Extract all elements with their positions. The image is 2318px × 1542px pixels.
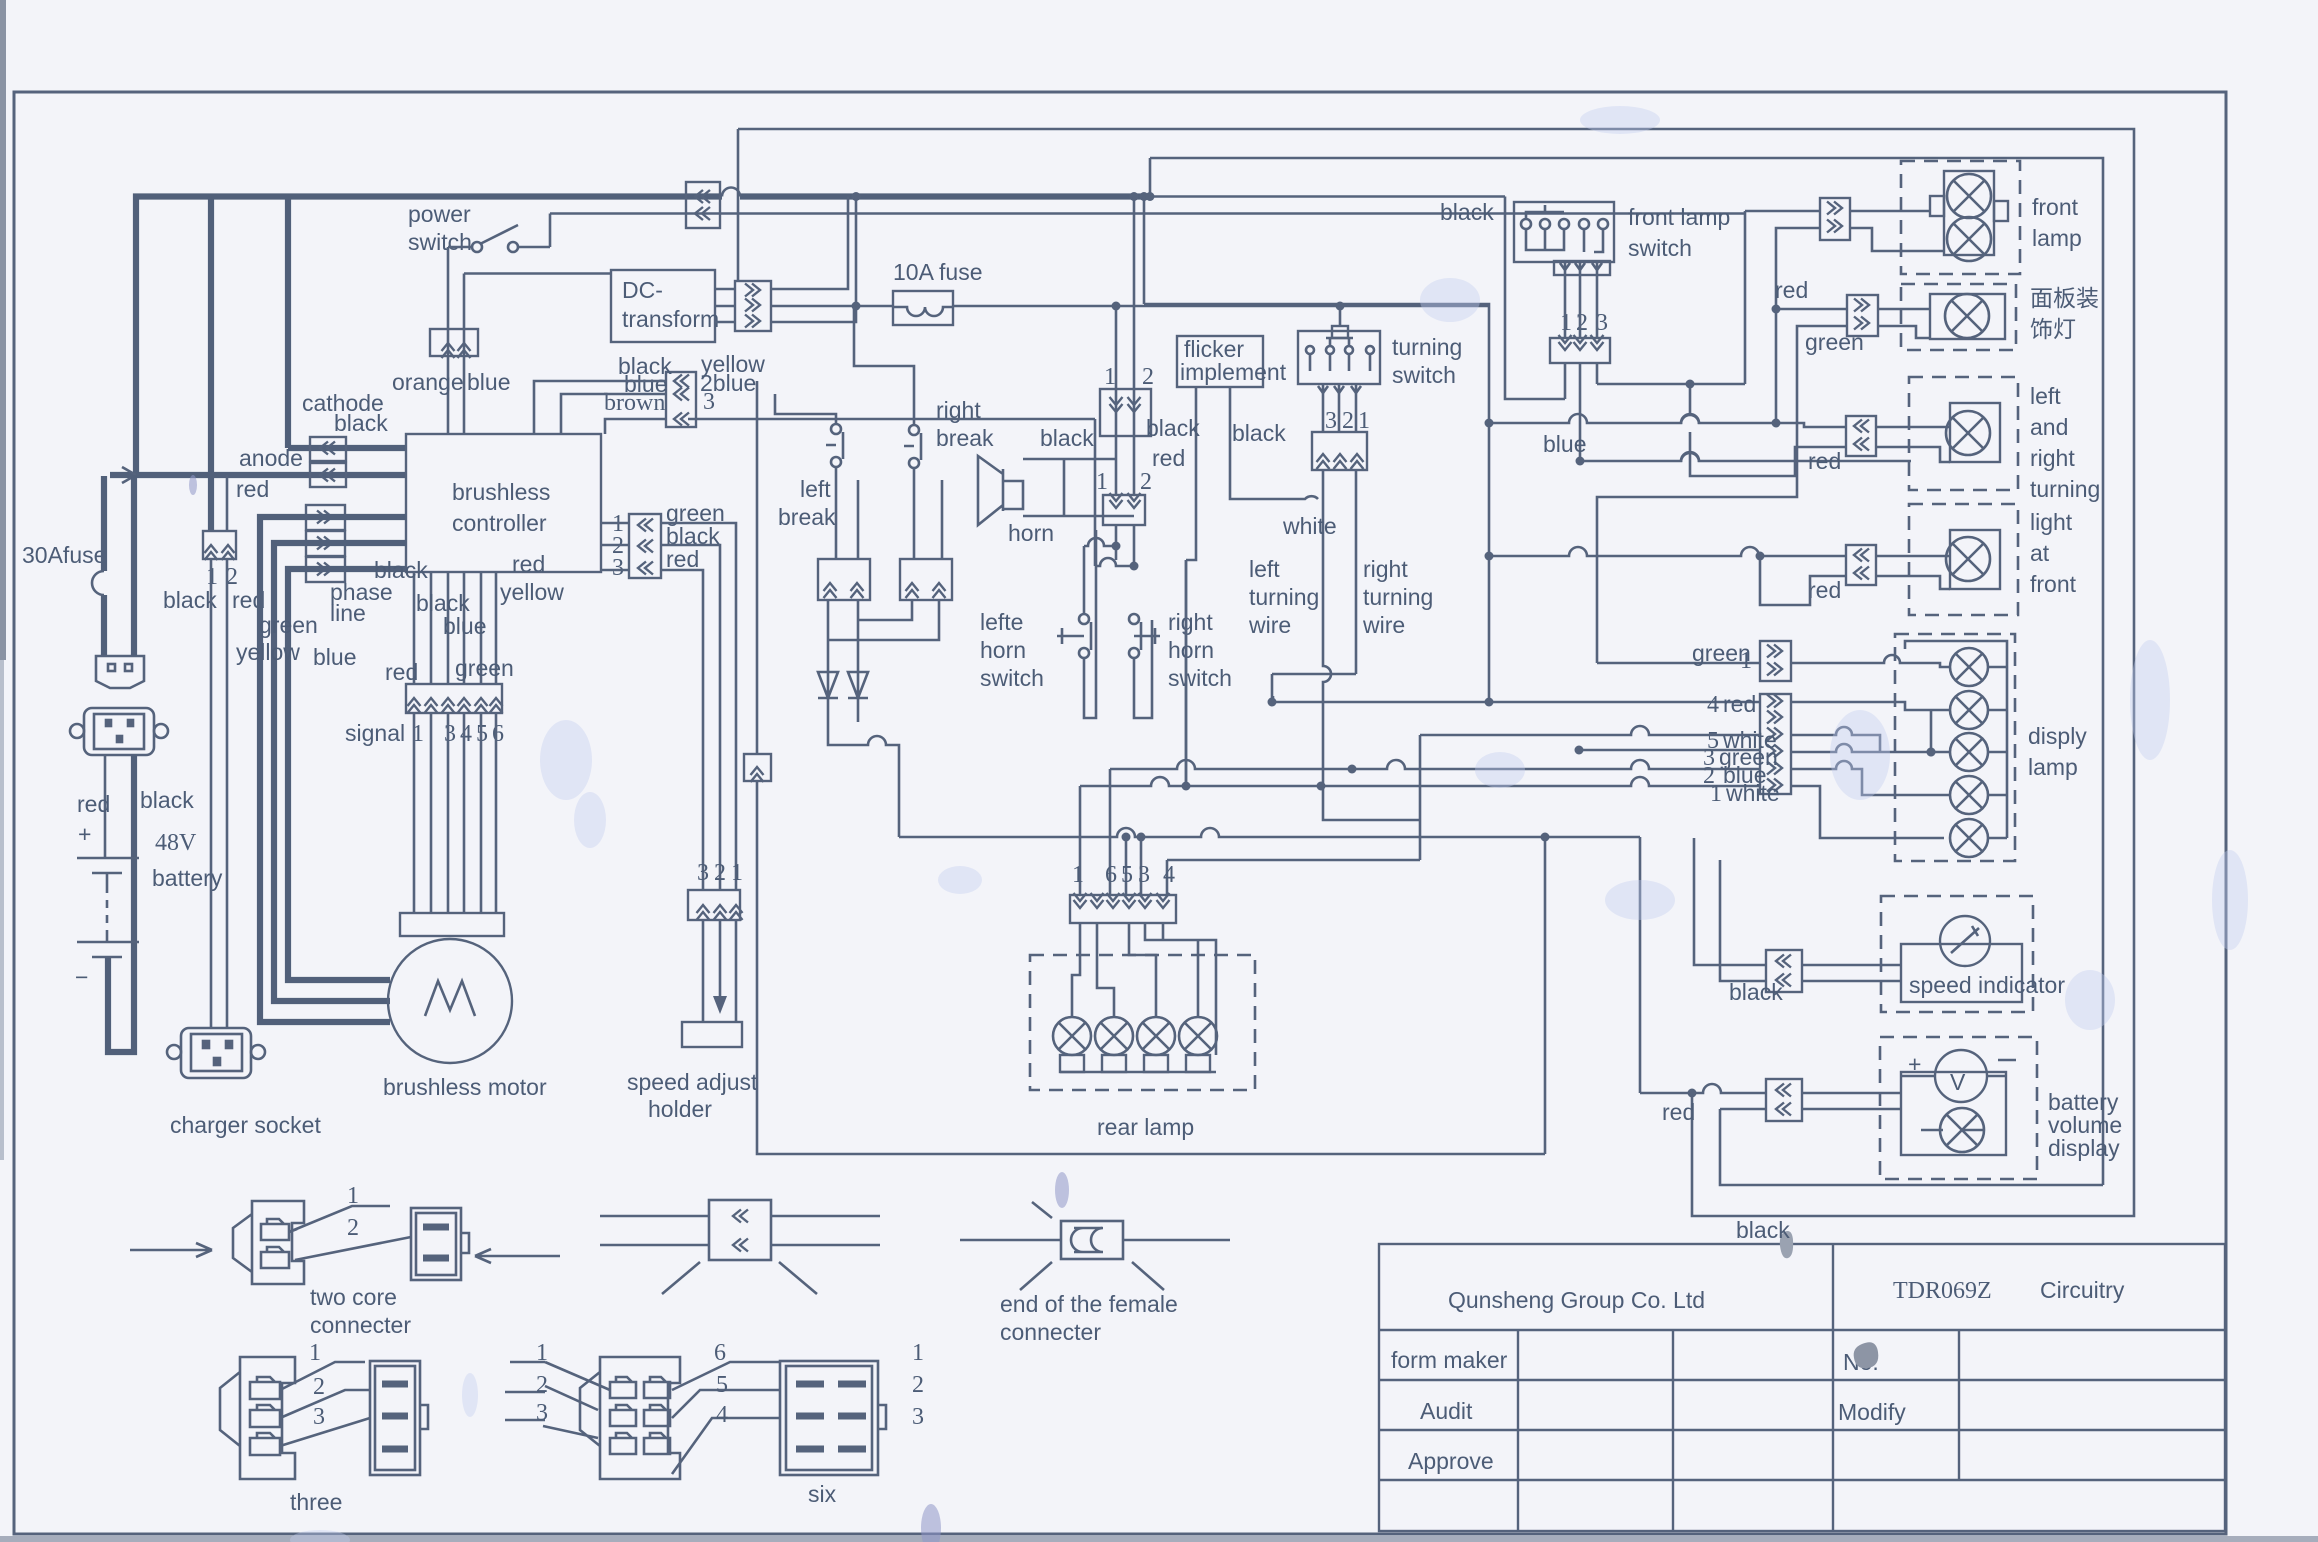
- wire 10Afuse-row to turning area: [1144, 197, 1489, 703]
- turning lamp L9: [1946, 537, 1990, 581]
- anode connector: [310, 463, 346, 487]
- svg-text:wire: wire: [1362, 612, 1405, 638]
- front lamp L5: [1947, 174, 1991, 218]
- svg-text:horn: horn: [980, 637, 1026, 663]
- 2pin connector on orange/blue: [430, 329, 478, 356]
- svg-text:3: 3: [912, 1404, 924, 1430]
- svg-text:48V: 48V: [155, 830, 197, 856]
- rear lamp L2: [1095, 1017, 1133, 1055]
- battery volume display box: [1880, 1037, 2037, 1179]
- svg-text:2: 2: [714, 860, 726, 886]
- svg-text:red: red: [77, 791, 110, 817]
- svg-text:right: right: [2030, 445, 2075, 471]
- svg-text:at: at: [2030, 540, 2050, 566]
- svg-text:power: power: [408, 201, 471, 227]
- svg-text:1: 1: [1096, 469, 1108, 495]
- svg-text:1: 1: [912, 1340, 924, 1366]
- svg-text:1: 1: [1104, 364, 1116, 390]
- svg-text:signal: signal: [345, 720, 405, 746]
- power switch output riser: [549, 214, 552, 248]
- rear lamp box: [1030, 955, 1255, 1090]
- three male connector: [220, 1357, 295, 1479]
- svg-text:red: red: [1775, 277, 1808, 303]
- pin2 wire: [1579, 363, 1582, 461]
- display box out wires: [1791, 702, 1950, 752]
- lefte horn switch S4: [1079, 614, 1089, 624]
- svg-text:3: 3: [444, 721, 456, 747]
- lamp bases: [1060, 1055, 1084, 1072]
- svg-text:3: 3: [1325, 408, 1337, 434]
- volume lamp L15: [1940, 1108, 1984, 1152]
- bus row3 to B: [1186, 547, 1846, 786]
- svg-text:right: right: [1168, 609, 1213, 635]
- turning lamp L8: [1946, 411, 1990, 455]
- small connector: [744, 754, 771, 781]
- svg-text:yellow: yellow: [500, 579, 564, 605]
- Z feed to A bottom: [1681, 384, 1846, 476]
- svg-text:Approve: Approve: [1408, 1448, 1494, 1474]
- svg-text:display: display: [2048, 1135, 2120, 1161]
- svg-text:2: 2: [1342, 408, 1354, 434]
- right horn switch S5: [1129, 614, 1139, 624]
- scan edge artifact: [0, 0, 6, 660]
- cathode wire: [288, 445, 406, 451]
- svg-text:3: 3: [703, 389, 715, 415]
- turning switch S6: [1298, 331, 1380, 384]
- blue bus row1: [1489, 414, 1846, 427]
- disply lamp L12: [1950, 733, 1988, 771]
- svg-text:black: black: [1040, 425, 1094, 451]
- front lamp feed wires: [1745, 211, 1820, 214]
- disply lamp box: [1895, 634, 2015, 861]
- svg-text:5: 5: [1121, 862, 1133, 888]
- flicker implement box: [1177, 336, 1263, 387]
- svg-text:yellow: yellow: [236, 639, 300, 665]
- two core female connector: [411, 1208, 469, 1280]
- brake bus: [899, 828, 1640, 1093]
- svg-text:TDR069Z: TDR069Z: [1893, 1278, 1992, 1304]
- svg-text:blue: blue: [467, 369, 510, 395]
- female end chevron legend: [600, 1200, 880, 1294]
- turning light A connector: [1846, 416, 1876, 456]
- svg-text:three: three: [290, 1489, 342, 1515]
- pin wires: [289, 1206, 411, 1260]
- svg-text:six: six: [808, 1481, 837, 1507]
- big loop wire B: [1150, 158, 2103, 1185]
- svg-text:6: 6: [714, 1340, 726, 1366]
- black feeder wire: [1505, 197, 1565, 400]
- svg-text:4: 4: [1707, 692, 1719, 718]
- svg-text:blue: blue: [443, 613, 486, 639]
- arrow right: [130, 1243, 212, 1257]
- svg-text:switch: switch: [980, 665, 1044, 691]
- svg-text:blue: blue: [313, 644, 356, 670]
- wire riser x=211: [208, 197, 214, 532]
- wire 5white feed: [1420, 726, 1760, 820]
- svg-text:implement: implement: [1180, 359, 1287, 385]
- svg-text:green: green: [1805, 329, 1864, 355]
- charger socket C14: [70, 708, 168, 755]
- svg-text:green: green: [455, 655, 514, 681]
- rear lamp L3: [1137, 1017, 1175, 1055]
- wires below break connectors: [828, 600, 939, 640]
- junction node: [852, 192, 861, 201]
- horn switch wires: [1116, 525, 1134, 566]
- svg-text:面板装: 面板装: [2030, 285, 2099, 311]
- front lamp switch connector: [1550, 338, 1610, 363]
- svg-text:1: 1: [347, 1183, 359, 1209]
- svg-text:lamp: lamp: [2032, 225, 2082, 251]
- svg-text:red: red: [1808, 448, 1841, 474]
- diode D1: [818, 666, 838, 698]
- disply lamp L14: [1950, 819, 1988, 857]
- wires controller-top to connector: [534, 381, 666, 434]
- svg-text:brushless motor: brushless motor: [383, 1074, 547, 1100]
- svg-text:turning: turning: [2030, 476, 2100, 502]
- panel lamp L7: [1945, 294, 1989, 338]
- blue bus row2: [1580, 452, 1911, 461]
- speed adjust wires: [661, 523, 736, 890]
- DC output connector: [735, 281, 771, 331]
- B out wires: [1876, 556, 1950, 589]
- svg-text:+: +: [78, 821, 91, 847]
- horn LS1: [978, 456, 1023, 525]
- bus connector: [686, 182, 720, 228]
- svg-text:Modify: Modify: [1838, 1399, 1906, 1425]
- svg-text:white: white: [1282, 513, 1337, 539]
- bottom loop wire: [757, 781, 1545, 1154]
- speed adjust holder: [682, 1022, 742, 1047]
- light at front box: [1909, 504, 2018, 615]
- rear lamp connector: [1070, 895, 1176, 923]
- svg-text:connecter: connecter: [1000, 1319, 1101, 1345]
- svg-text:speed adjust: speed adjust: [627, 1069, 758, 1095]
- svg-text:−: −: [75, 964, 88, 990]
- svg-text:red: red: [1808, 577, 1841, 603]
- svg-text:front lamp: front lamp: [1628, 204, 1730, 230]
- svg-text:black: black: [1440, 199, 1494, 225]
- front lamp connector: [1820, 198, 1850, 240]
- svg-text:6: 6: [1105, 862, 1117, 888]
- svg-text:left: left: [2030, 383, 2061, 409]
- svg-text:rear lamp: rear lamp: [1097, 1114, 1194, 1140]
- brushless motor M1: [388, 939, 512, 1063]
- svg-text:line: line: [330, 600, 366, 626]
- turning light B connector: [1846, 545, 1876, 585]
- svg-text:charger socket: charger socket: [170, 1112, 321, 1138]
- disply lamp L10: [1950, 648, 1988, 686]
- svg-text:4: 4: [1163, 862, 1175, 888]
- right break connector: [900, 559, 952, 600]
- riser to big loop: [737, 129, 740, 281]
- svg-text:disply: disply: [2028, 723, 2087, 749]
- blue wire: [463, 274, 466, 435]
- svg-text:Qunsheng Group Co. Ltd: Qunsheng Group Co. Ltd: [1448, 1287, 1705, 1313]
- wire riser x=288 cathode: [285, 197, 291, 449]
- phase connector 1: [306, 505, 345, 530]
- turning light A box: [1909, 377, 2018, 490]
- wire into front lamp conn bottom: [1772, 305, 1781, 314]
- arrows under switch: [1560, 262, 1602, 270]
- diode D2: [848, 666, 868, 698]
- svg-text:controller: controller: [452, 510, 547, 536]
- svg-text:white: white: [1725, 780, 1780, 806]
- svg-text:1: 1: [536, 1340, 548, 1366]
- panel lamp connector: [1847, 295, 1878, 336]
- svg-text:black: black: [374, 557, 428, 583]
- six male connector: [580, 1357, 680, 1479]
- svg-text:30Afuse: 30Afuse: [22, 542, 106, 568]
- svg-text:2: 2: [1140, 469, 1152, 495]
- 2-pin connector on charger wires: [203, 531, 236, 559]
- svg-text:1: 1: [1710, 781, 1722, 807]
- battery volume feeds: [1640, 1084, 2103, 1185]
- wire socket to battery red: [104, 755, 107, 845]
- svg-text:red: red: [1723, 691, 1756, 717]
- phase connector 3: [306, 557, 345, 582]
- svg-text:blue: blue: [1543, 431, 1586, 457]
- svg-text:turning: turning: [1363, 584, 1433, 610]
- display 5pin connector: [1760, 694, 1791, 794]
- svg-text:red: red: [1152, 445, 1185, 471]
- speed gauge G1: [1940, 916, 1990, 966]
- speed adjust connector: [688, 890, 740, 920]
- svg-text:orange: orange: [392, 369, 464, 395]
- speed indicator connector: [1766, 950, 1802, 992]
- phase connector 2: [306, 531, 345, 556]
- svg-text:black: black: [1736, 1217, 1790, 1243]
- battery volume connector: [1766, 1079, 1802, 1121]
- svg-text:2: 2: [313, 1374, 325, 1400]
- flicker wires: [1186, 387, 1318, 786]
- svg-text:red: red: [236, 476, 269, 502]
- svg-text:lefte: lefte: [980, 609, 1023, 635]
- svg-text:green: green: [259, 612, 318, 638]
- right turning wire: [1272, 470, 1420, 860]
- 3pin connector green/black/red: [629, 514, 661, 578]
- svg-text:3: 3: [536, 1400, 548, 1426]
- svg-text:black: black: [334, 410, 388, 436]
- middle bus 3green: [1579, 749, 1760, 752]
- horn connector 1: [1100, 389, 1151, 436]
- speed indicator box: [1881, 896, 2033, 1012]
- title block: [1379, 1231, 2225, 1531]
- svg-text:Circuitry: Circuitry: [2040, 1277, 2125, 1303]
- svg-text:light: light: [2030, 509, 2073, 535]
- svg-text:lamp: lamp: [2028, 754, 2078, 780]
- svg-text:2: 2: [912, 1372, 924, 1398]
- motor terminal block: [400, 913, 504, 936]
- pin4 feed: [1167, 860, 1420, 895]
- arrow left: [475, 1249, 560, 1263]
- svg-text:2: 2: [1142, 364, 1154, 390]
- left turning wire: [1323, 470, 1420, 820]
- svg-text:wire: wire: [1248, 612, 1291, 638]
- svg-text:2: 2: [536, 1372, 548, 1398]
- volt meter V1: [1935, 1050, 1987, 1102]
- svg-text:10A fuse: 10A fuse: [893, 259, 983, 285]
- cathode connector: [310, 437, 346, 461]
- orange wire: [447, 247, 450, 434]
- turning switch connector: [1312, 432, 1367, 470]
- svg-text:red: red: [385, 659, 418, 685]
- horn connector 2: [1103, 495, 1145, 525]
- svg-text:4: 4: [716, 1402, 728, 1428]
- panel lamp wires out: [1878, 309, 1930, 338]
- wire switch to DC: [464, 272, 611, 275]
- middle bus 2blue: [1110, 760, 1760, 769]
- svg-text:and: and: [2030, 414, 2068, 440]
- rear lamp wires: [1072, 923, 1216, 1055]
- signal connector: [406, 684, 502, 713]
- front lamp switch S7: [1514, 202, 1614, 262]
- wires to bottom charger socket: [211, 475, 227, 1028]
- svg-text:switch: switch: [1168, 665, 1232, 691]
- arrows under switch: [1318, 384, 1361, 393]
- svg-text:Audit: Audit: [1420, 1398, 1473, 1424]
- disply lamp L13: [1950, 776, 1988, 814]
- svg-text:2: 2: [347, 1215, 359, 1241]
- female end curved legend: [960, 1202, 1230, 1290]
- svg-text:left: left: [1249, 556, 1280, 582]
- svg-text:two core: two core: [310, 1284, 397, 1310]
- black wire down right of battery: [108, 475, 134, 1052]
- svg-text:horn: horn: [1168, 637, 1214, 663]
- svg-text:connecter: connecter: [310, 1312, 411, 1338]
- svg-text:black: black: [163, 587, 217, 613]
- svg-text:black: black: [1146, 415, 1200, 441]
- svg-text:brushless: brushless: [452, 479, 550, 505]
- red riser to panel conn: [1776, 309, 1847, 423]
- svg-text:1: 1: [1740, 648, 1752, 674]
- svg-text:red: red: [1662, 1099, 1695, 1125]
- speed ind feed wires: [1694, 838, 1766, 981]
- svg-text:black: black: [1729, 979, 1783, 1005]
- front lamp L6: [1947, 217, 1991, 261]
- svg-text:black: black: [140, 787, 194, 813]
- green wire to lamp: [1791, 655, 1950, 667]
- svg-text:transform: transform: [622, 306, 719, 332]
- junction node: [1130, 192, 1139, 201]
- svg-text:DC-: DC-: [622, 277, 663, 303]
- anode bus wire: [110, 472, 406, 478]
- svg-text:1: 1: [309, 1340, 321, 1366]
- svg-text:6: 6: [492, 721, 504, 747]
- yellow wire riser: [756, 381, 759, 754]
- 3pin connector black/blue/brown: [666, 372, 696, 427]
- middle bus green-row: [1597, 662, 1760, 665]
- green wire: [1597, 326, 1847, 663]
- phase wires thick: [260, 517, 406, 1022]
- svg-text:left: left: [800, 476, 831, 502]
- svg-text:turning: turning: [1249, 584, 1319, 610]
- svg-text:turning: turning: [1392, 334, 1462, 360]
- svg-text:break: break: [936, 425, 994, 451]
- rear lamp L4: [1179, 1017, 1217, 1055]
- svg-text:1: 1: [1072, 862, 1084, 888]
- svg-text:switch: switch: [1628, 235, 1692, 261]
- svg-text:switch: switch: [408, 229, 472, 255]
- svg-text:red: red: [666, 546, 699, 572]
- green connector: [1760, 641, 1791, 681]
- svg-text:black: black: [1232, 420, 1286, 446]
- svg-text:3: 3: [313, 1404, 325, 1430]
- svg-text:饰灯: 饰灯: [2030, 316, 2076, 342]
- wires below diodes: [828, 698, 899, 837]
- svg-text:5: 5: [716, 1372, 728, 1398]
- DC-transform box: [611, 270, 715, 342]
- svg-text:4: 4: [460, 721, 472, 747]
- junction node: [1140, 192, 1149, 201]
- main top bus wire: [136, 197, 1150, 476]
- fuse wire: [771, 305, 1489, 308]
- brushless controller box U1: [406, 434, 601, 572]
- svg-text:end of the female: end of the female: [1000, 1291, 1178, 1317]
- six female connector: [780, 1361, 886, 1475]
- rear lamp L1: [1053, 1017, 1091, 1055]
- svg-text:holder: holder: [648, 1096, 712, 1122]
- svg-text:front: front: [2030, 571, 2077, 597]
- bottom charger socket: [167, 1028, 265, 1078]
- front lamp box: [1901, 161, 2020, 274]
- svg-text:1: 1: [731, 860, 743, 886]
- svg-text:form maker: form maker: [1391, 1347, 1508, 1373]
- svg-text:red: red: [512, 551, 545, 577]
- three female connector: [370, 1361, 428, 1475]
- display rails: [1905, 641, 2007, 838]
- svg-text:2: 2: [1576, 310, 1588, 336]
- long wire to right side: [550, 212, 1745, 215]
- svg-text:V: V: [1950, 1069, 1966, 1095]
- svg-text:3: 3: [1138, 862, 1150, 888]
- svg-text:anode: anode: [239, 445, 303, 471]
- big loop wire A: [738, 129, 2134, 1216]
- svg-text:right: right: [1363, 556, 1408, 582]
- disply lamp L11: [1950, 691, 1988, 729]
- svg-text:front: front: [2032, 194, 2079, 220]
- two core male connector: [233, 1201, 304, 1284]
- A out wires: [1876, 427, 1950, 462]
- svg-text:speed indicator: speed indicator: [1909, 972, 2065, 998]
- svg-text:horn: horn: [1008, 520, 1054, 546]
- horn wires up: [1064, 197, 1134, 496]
- middle bus 4red: [1273, 701, 1760, 704]
- middle bus 1white: [1080, 777, 1760, 786]
- charger socket small: [96, 656, 144, 688]
- pin3 wire: [1597, 214, 1745, 385]
- svg-text:3: 3: [697, 860, 709, 886]
- panel decoration lamp box: [1901, 284, 2016, 350]
- left break connector: [818, 559, 870, 600]
- six signal wires: [414, 572, 496, 913]
- svg-text:1: 1: [1358, 408, 1370, 434]
- svg-text:switch: switch: [1392, 362, 1456, 388]
- Z feed to B bottom: [1760, 556, 1846, 605]
- DC out wires: [771, 197, 856, 323]
- svg-text:+: +: [1908, 1051, 1921, 1077]
- svg-text:break: break: [778, 504, 836, 530]
- svg-text:3: 3: [612, 555, 624, 581]
